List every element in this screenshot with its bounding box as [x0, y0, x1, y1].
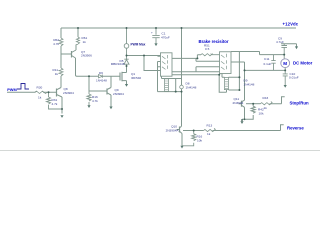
svg-text:PWM: PWM: [7, 87, 17, 92]
svg-text:1k: 1k: [207, 132, 211, 136]
svg-text:1k: 1k: [264, 106, 268, 110]
svg-text:PWM Max: PWM Max: [131, 43, 146, 47]
svg-text:1k: 1k: [55, 72, 59, 76]
svg-text:4.7uF: 4.7uF: [276, 40, 284, 44]
svg-text:R30: R30: [37, 86, 43, 90]
svg-text:4.7k: 4.7k: [92, 99, 98, 103]
svg-text:+12Vdc: +12Vdc: [283, 22, 299, 27]
svg-text:470uF: 470uF: [161, 36, 170, 40]
svg-text:Reverse: Reverse: [287, 125, 304, 130]
svg-text:2N3904: 2N3904: [233, 101, 244, 105]
svg-text:2N3904A: 2N3904A: [166, 129, 180, 133]
svg-text:DC Motor: DC Motor: [293, 61, 313, 66]
svg-text:1N4148: 1N4148: [96, 79, 107, 83]
svg-text:4.7k: 4.7k: [52, 102, 58, 106]
svg-text:M: M: [283, 61, 287, 66]
svg-text:0.1uF: 0.1uF: [264, 62, 272, 66]
svg-text:2N3906: 2N3906: [81, 54, 92, 58]
svg-text:0.01uF: 0.01uF: [289, 75, 299, 79]
svg-text:+: +: [151, 31, 153, 35]
svg-text:4.7k: 4.7k: [53, 42, 59, 46]
svg-text:Stop/Run: Stop/Run: [290, 100, 309, 105]
svg-text:C11: C11: [264, 57, 270, 61]
svg-text:1N4148: 1N4148: [244, 83, 255, 87]
svg-text:R43: R43: [263, 96, 269, 100]
svg-text:D6: D6: [99, 71, 103, 75]
svg-text:1k: 1k: [83, 40, 87, 44]
svg-text:10k: 10k: [259, 112, 264, 116]
svg-text:10k: 10k: [197, 139, 202, 143]
svg-text:IRF540: IRF540: [131, 76, 141, 80]
svg-text:2N3904: 2N3904: [113, 92, 124, 96]
svg-text:R13: R13: [207, 123, 213, 127]
svg-text:2N3904: 2N3904: [63, 91, 74, 95]
svg-text:0.5: 0.5: [205, 47, 210, 51]
svg-text:1N4148: 1N4148: [186, 86, 197, 90]
svg-text:1k: 1k: [38, 96, 42, 100]
svg-text:MBR1045: MBR1045: [111, 62, 125, 66]
